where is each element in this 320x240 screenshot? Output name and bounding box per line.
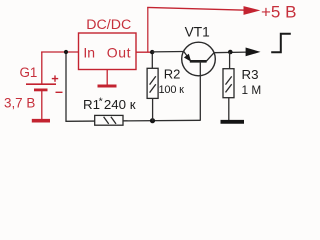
symbol: logic step waveform [271, 34, 291, 53]
ground: DC/DC ground bar (red) [98, 85, 117, 88]
resistor R2 [151, 52, 153, 68]
node: Out junction [150, 50, 154, 54]
wire: +5V top rail [147, 7, 246, 10]
resistor R1 [95, 115, 123, 125]
DC/DC converter box [79, 33, 137, 70]
wire: +5V rail riser from Out node up [147, 7, 149, 52]
wire: battery riser [41, 52, 43, 85]
wire: collector to output [214, 51, 248, 54]
resistor R3 [229, 52, 231, 69]
wire: left branch down to bottom rail [65, 52, 67, 121]
node: junction battery/In [64, 50, 68, 54]
svg-text:1 М: 1 М [242, 83, 262, 97]
wire: DC/DC ground lead [106, 70, 108, 86]
svg-text:DC/DC: DC/DC [86, 17, 131, 33]
svg-text:*: * [99, 95, 103, 107]
wire: bottom rail [65, 120, 200, 121]
svg-text:3,7 В: 3,7 В [4, 95, 35, 110]
wire: battery + to DC/DC In [41, 51, 78, 53]
battery G1 negative plate [34, 89, 48, 92]
svg-text:R2: R2 [164, 67, 181, 82]
svg-text:In: In [83, 44, 95, 60]
wire: battery negative lead down [41, 91, 43, 120]
ground: R3 ground bar (black) [221, 120, 245, 124]
svg-text:Out: Out [107, 45, 131, 61]
svg-text:R1: R1 [83, 97, 100, 112]
arrow: +5V output arrow [244, 6, 261, 15]
svg-text:R3: R3 [242, 67, 259, 82]
arrow: output arrow [246, 48, 261, 57]
svg-text:240 к: 240 к [104, 97, 136, 112]
node: output/R3 junction [228, 50, 233, 55]
ground: battery ground bar (red) [32, 119, 50, 123]
battery G1 positive plate [26, 83, 56, 85]
svg-text:100 к: 100 к [159, 84, 185, 96]
wire: emitter lead to VT1 [152, 51, 184, 53]
battery - sign [56, 91, 63, 93]
node: bottom rail junction [150, 118, 155, 123]
battery + sign [52, 75, 58, 81]
svg-text:G1: G1 [20, 65, 38, 80]
transistor VT1 [182, 42, 216, 120]
svg-text:VT1: VT1 [185, 25, 210, 40]
svg-text:+5 В: +5 В [261, 3, 296, 22]
wire: Out pin stub [136, 51, 153, 53]
